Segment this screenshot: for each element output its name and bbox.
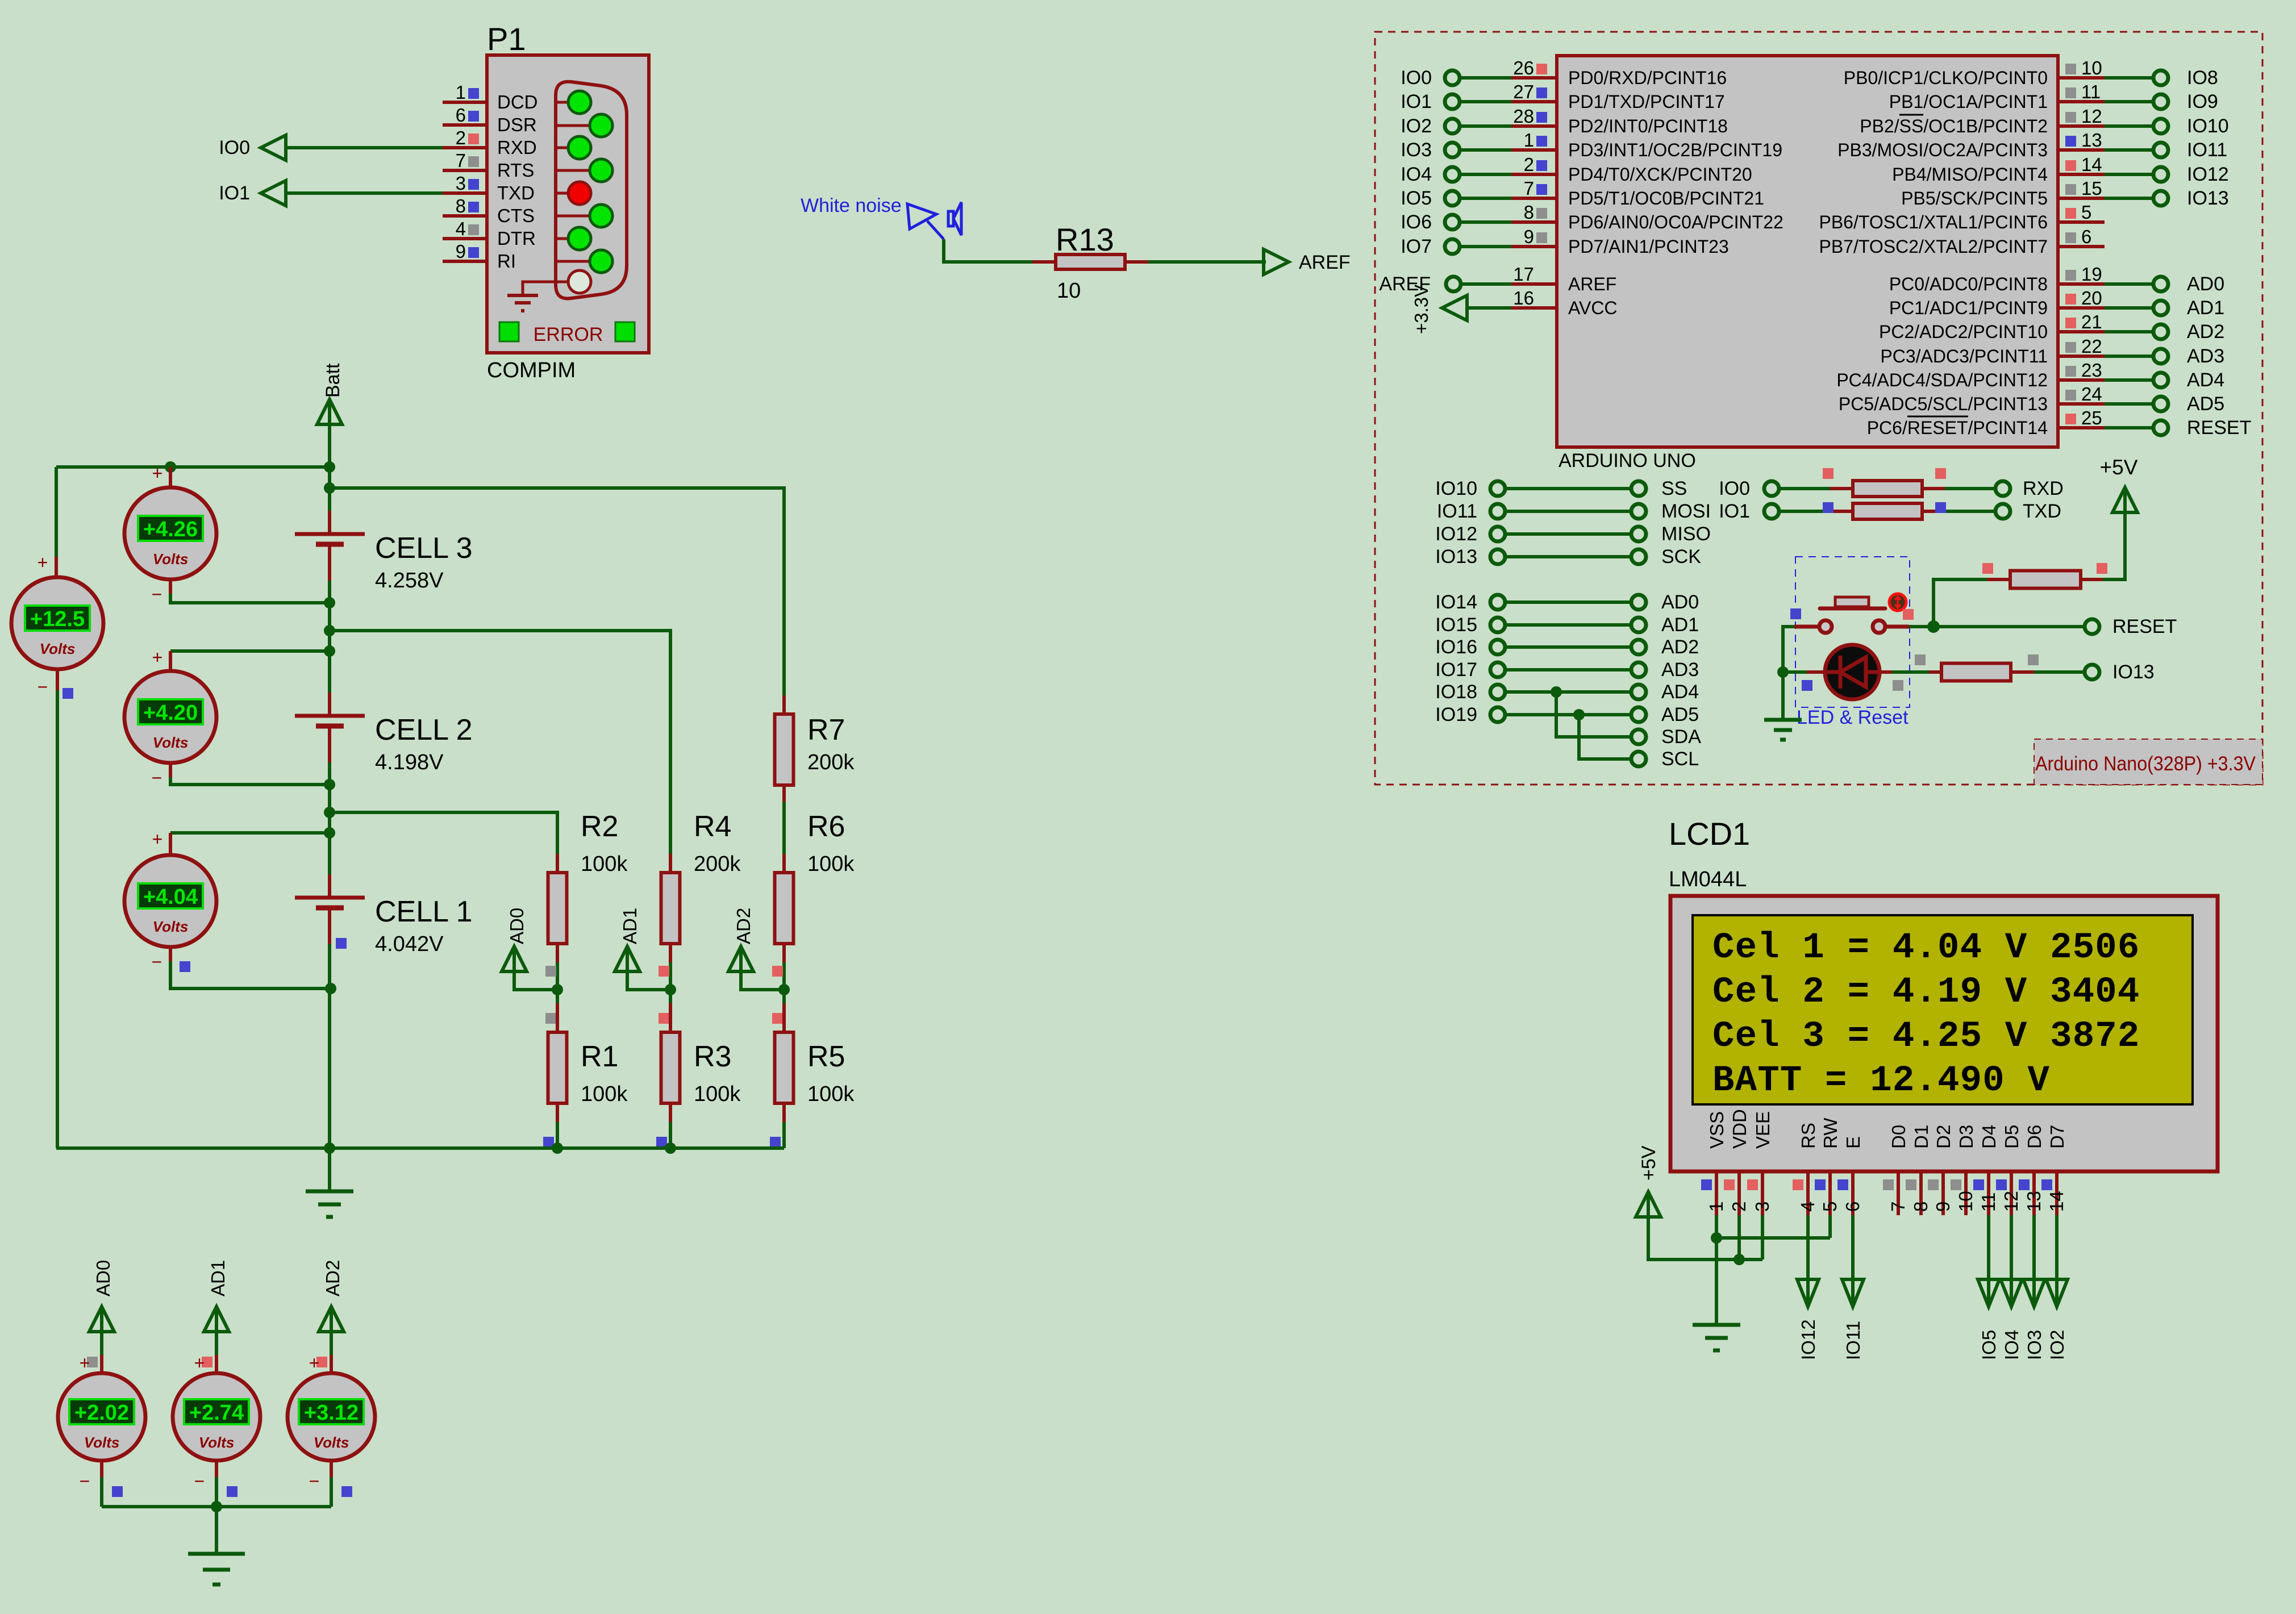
wire bottom meters common	[102, 1501, 331, 1554]
resistor R4	[661, 854, 680, 962]
voltmeter +2.02 Volts (AD0)	[58, 1332, 145, 1507]
svg-text:RESET: RESET	[2187, 417, 2251, 439]
svg-text:−: −	[37, 677, 48, 697]
pin 2 PD4/T0/XCK/PCINT20	[1511, 154, 1752, 185]
pin 7 RTS of P1	[443, 150, 534, 181]
node AD1 (right terminal)	[2153, 297, 2224, 319]
svg-text:4.258V: 4.258V	[375, 569, 444, 593]
svg-text:IO14: IO14	[1435, 591, 1477, 613]
svg-text:PD4/T0/XCK/PCINT20: PD4/T0/XCK/PCINT20	[1568, 164, 1752, 185]
svg-text:19: 19	[2081, 264, 2102, 285]
svg-text:D4: D4	[1978, 1125, 1999, 1149]
pin 1 DCD of P1	[443, 82, 538, 112]
svg-text:+: +	[152, 829, 163, 849]
svg-text:IO19: IO19	[1435, 704, 1477, 725]
svg-text:−: −	[152, 952, 162, 972]
svg-text:AD4: AD4	[2187, 369, 2224, 391]
svg-text:8: 8	[1910, 1202, 1931, 1212]
node IO11 / MOSI header pair	[1437, 501, 1711, 522]
svg-text:AD1: AD1	[1661, 614, 1699, 636]
svg-text:D5: D5	[2001, 1125, 2022, 1149]
node AD1 (arrow, bottom meter)	[204, 1260, 229, 1332]
svg-text:AD0: AD0	[2187, 273, 2224, 295]
wire AREF	[1461, 282, 1511, 286]
svg-text:IO16: IO16	[1435, 636, 1477, 658]
wire AD1 tap	[627, 971, 676, 995]
svg-text:+5V: +5V	[2100, 456, 2138, 479]
value 100k (R2)	[581, 852, 628, 876]
LCD text line 3	[1712, 1016, 2140, 1057]
svg-text:D1: D1	[1911, 1125, 1932, 1149]
svg-text:RXD: RXD	[497, 137, 537, 158]
pin 10 D3 of LCD1	[1951, 1125, 1977, 1215]
svg-text:IO11: IO11	[1843, 1321, 1864, 1360]
svg-text:TXD: TXD	[497, 182, 535, 203]
svg-text:AD5: AD5	[2187, 393, 2224, 415]
svg-text:SDA: SDA	[1661, 726, 1701, 748]
value 4.258V	[375, 569, 444, 593]
svg-text:ARDUINO UNO: ARDUINO UNO	[1559, 450, 1696, 472]
svg-text:−: −	[194, 1471, 205, 1491]
pin 8 CTS of P1	[443, 195, 535, 226]
svg-text:PC2/ADC2/PCINT10: PC2/ADC2/PCINT10	[1879, 322, 2048, 342]
svg-text:4: 4	[456, 218, 466, 239]
svg-text:AD2: AD2	[733, 908, 754, 944]
svg-text:IO10: IO10	[2187, 115, 2229, 137]
wire bus to R2 column	[330, 812, 557, 854]
svg-text:VSS: VSS	[1706, 1111, 1727, 1149]
svg-text:D3: D3	[1956, 1125, 1977, 1149]
node SCL terminal	[1631, 748, 1699, 770]
svg-text:AD3: AD3	[1661, 659, 1699, 681]
battery CELL 2	[295, 693, 365, 762]
resistor (series TXD)	[1780, 503, 1995, 519]
svg-text:+3.3V: +3.3V	[1411, 285, 1432, 334]
pin 20 PC1/ADC1/PCINT9	[1889, 287, 2105, 318]
wire R7 to R6	[782, 802, 786, 854]
value 100k (R3)	[694, 1082, 741, 1106]
svg-text:Cel 3 = 4.25 V 3872: Cel 3 = 4.25 V 3872	[1712, 1016, 2140, 1057]
P1 DB9 pin lamp 7	[556, 227, 591, 250]
svg-text:+: +	[152, 463, 163, 483]
node IO3 (left terminal)	[1401, 139, 1460, 161]
pin 2 RXD of P1	[443, 127, 537, 158]
svg-text:1: 1	[456, 82, 466, 103]
svg-text:IO0: IO0	[1719, 478, 1750, 499]
svg-text:AREF: AREF	[1568, 274, 1616, 294]
svg-text:13: 13	[2081, 130, 2102, 151]
svg-text:4.042V: 4.042V	[375, 932, 444, 956]
pin 13 D6 of LCD1	[2019, 1125, 2045, 1215]
svg-text:8: 8	[456, 195, 466, 216]
blue square (cell1 minus)	[336, 938, 347, 949]
wire left rail of LED&Reset	[1783, 627, 1794, 720]
wire R4 to junction	[669, 962, 672, 1003]
value 4.042V	[375, 932, 444, 956]
pin 5 PB6/TOSC1/XTAL1/PCINT6	[1819, 202, 2105, 232]
DB9 connector outline inside P1	[556, 82, 627, 299]
svg-text:Arduino Nano(328P) +3.3V: Arduino Nano(328P) +3.3V	[2035, 753, 2256, 775]
node AD0 (right terminal)	[2153, 273, 2224, 295]
ground (LCD VSS)	[1693, 1325, 1740, 1350]
svg-text:200k: 200k	[694, 852, 741, 876]
label R4	[694, 810, 731, 843]
node IO12 (arrow)	[1797, 1279, 1819, 1360]
svg-text:IO5: IO5	[1978, 1330, 1999, 1360]
node IO19 / AD5 header pair	[1435, 704, 1699, 725]
wire pin 23 to AD4	[2105, 378, 2153, 382]
svg-text:12: 12	[2001, 1191, 2022, 1212]
svg-text:PC4/ADC4/SDA/PCINT12: PC4/ADC4/SDA/PCINT12	[1836, 370, 2048, 390]
wire pin 22 to AD3	[2105, 355, 2153, 358]
svg-text:AREF: AREF	[1299, 252, 1351, 273]
svg-text:2: 2	[1728, 1202, 1749, 1212]
node IO3 (arrow)	[2023, 1279, 2045, 1360]
svg-text:PD5/T1/OC0B/PCINT21: PD5/T1/OC0B/PCINT21	[1568, 188, 1764, 208]
svg-text:PD2/INT0/PCINT18: PD2/INT0/PCINT18	[1568, 116, 1728, 136]
wire RW to VSS	[1716, 1215, 1830, 1238]
wire ground rail	[56, 1146, 784, 1150]
wire R5 to ground rail	[782, 1122, 786, 1148]
wire R2 to junction	[556, 962, 559, 1003]
pin 3 VEE of LCD1	[1747, 1111, 1773, 1215]
svg-text:27: 27	[1513, 81, 1534, 102]
pin 4 RS of LCD1	[1793, 1123, 1819, 1215]
svg-text:IO2: IO2	[2047, 1330, 2068, 1360]
svg-text:PB3/MOSI/OC2A/PCINT3: PB3/MOSI/OC2A/PCINT3	[1837, 140, 2048, 160]
svg-text:COMPIM: COMPIM	[487, 358, 576, 382]
svg-text:IO1: IO1	[1719, 501, 1750, 522]
wire pin 10 to IO8	[2105, 76, 2153, 80]
svg-text:+2.02: +2.02	[74, 1401, 129, 1425]
node IO17 / AD3 header pair	[1435, 659, 1699, 681]
svg-text:DTR: DTR	[497, 228, 536, 249]
wire pin 25 to RESET	[2105, 426, 2153, 429]
svg-text:6: 6	[456, 105, 466, 126]
pin 12 D5 of LCD1	[1996, 1125, 2022, 1215]
svg-text:14: 14	[2046, 1191, 2067, 1212]
junction	[324, 1142, 676, 1154]
node IO0 (serial header)	[1719, 478, 1779, 499]
svg-text:IO9: IO9	[2187, 91, 2218, 112]
ground (battery rail)	[306, 1148, 353, 1217]
value 100k (R6)	[807, 852, 855, 876]
svg-text:E: E	[1843, 1136, 1864, 1149]
svg-text:PB5/SCK/PCINT5: PB5/SCK/PCINT5	[1901, 188, 2048, 208]
svg-text:9: 9	[1524, 226, 1534, 247]
P1 DB9 pin lamp 9	[556, 270, 591, 293]
squares at R4 junction	[659, 966, 669, 1024]
wire pin 21 to AD2	[2105, 330, 2153, 333]
resistor R1	[548, 1003, 567, 1122]
label R2	[581, 810, 618, 843]
svg-text:CELL 2: CELL 2	[375, 714, 473, 746]
wire AD2 tap	[741, 971, 790, 995]
wire IO1 to pin 27	[1460, 100, 1511, 103]
connector P1 COMPIM body	[487, 55, 649, 353]
power +5V (arrow)	[2100, 456, 2138, 512]
svg-text:IO0: IO0	[219, 137, 250, 159]
svg-text:IO1: IO1	[1401, 91, 1432, 112]
node IO10 / SS header pair	[1435, 478, 1687, 499]
resistor (LED series)	[1880, 664, 2083, 681]
svg-text:D6: D6	[2024, 1125, 2045, 1149]
svg-text:DCD: DCD	[497, 91, 538, 112]
svg-text:7: 7	[1524, 178, 1534, 199]
svg-text:RS: RS	[1798, 1123, 1819, 1149]
svg-text:100k: 100k	[807, 1082, 855, 1106]
node IO13 (right terminal)	[2153, 187, 2229, 209]
svg-text:RESET: RESET	[2112, 616, 2177, 637]
svg-text:Volts: Volts	[153, 734, 189, 751]
value 200k (R7)	[807, 750, 855, 774]
node AREF (left terminal)	[1379, 273, 1461, 295]
node IO8 (right terminal)	[2153, 67, 2218, 89]
svg-text:2: 2	[1524, 154, 1534, 175]
svg-text:+12.5: +12.5	[30, 607, 85, 631]
label R13	[1056, 222, 1114, 257]
node IO13 terminal	[2085, 661, 2155, 683]
svg-text:IO11: IO11	[2187, 139, 2227, 161]
node AD3 (right terminal)	[2153, 345, 2224, 367]
node IO0 (left terminal)	[1401, 67, 1460, 89]
svg-text:4.198V: 4.198V	[375, 750, 444, 774]
dashed box LED & Reset	[1795, 557, 1910, 707]
wire LCD pin to IO4	[2010, 1215, 2013, 1282]
svg-text:IO12: IO12	[2187, 164, 2229, 185]
value 10 (R13)	[1057, 279, 1081, 303]
svg-text:P1: P1	[487, 21, 526, 57]
value LM044L	[1669, 868, 1747, 891]
node IO10 (right terminal)	[2153, 115, 2229, 137]
svg-text:RI: RI	[497, 251, 516, 272]
pin 11 D4 of LCD1	[1973, 1125, 1999, 1215]
svg-text:+4.20: +4.20	[143, 701, 198, 725]
wire pin 11 to IO9	[2105, 100, 2153, 103]
node IO1 (left terminal)	[1401, 91, 1460, 112]
svg-text:200k: 200k	[807, 750, 855, 774]
svg-text:R13: R13	[1056, 222, 1114, 257]
pin 15 PB5/SCK/PCINT5	[1901, 178, 2105, 208]
svg-text:Cel 2 = 4.19 V 3404: Cel 2 = 4.19 V 3404	[1712, 972, 2140, 1013]
svg-text:PD0/RXD/PCINT16: PD0/RXD/PCINT16	[1568, 68, 1727, 88]
pin 23 PC4/ADC4/SDA/PCINT12	[1836, 360, 2105, 390]
node IO12 / MISO header pair	[1435, 523, 1711, 545]
svg-text:TXD: TXD	[2023, 501, 2061, 522]
overline SS (PB2)	[1899, 114, 1923, 116]
label R1	[581, 1040, 618, 1073]
svg-text:28: 28	[1513, 106, 1534, 127]
pin 11 PB1/OC1A/PCINT1	[1889, 81, 2105, 112]
pin 2 VDD of LCD1	[1724, 1109, 1750, 1215]
svg-text:IO4: IO4	[2001, 1330, 2022, 1360]
svg-text:13: 13	[2023, 1191, 2044, 1212]
LCD screen	[1693, 915, 2193, 1104]
junction	[165, 461, 335, 494]
P1 DB9 pin lamp 1	[556, 91, 591, 114]
svg-text:IO2: IO2	[1401, 115, 1432, 137]
svg-text:AD4: AD4	[1661, 681, 1699, 703]
pin 9 RI of P1	[443, 241, 516, 272]
svg-text:10: 10	[2081, 57, 2102, 78]
node AD1 (arrow)	[615, 908, 640, 971]
node IO14 / AD0 header pair	[1435, 591, 1699, 613]
svg-text:IO13: IO13	[2112, 661, 2155, 683]
svg-text:PB2/SS/OC1B/PCINT2: PB2/SS/OC1B/PCINT2	[1860, 116, 2048, 136]
squares (pushbutton)	[1790, 608, 1914, 620]
wire pin 12 to IO10	[2105, 124, 2153, 128]
svg-text:7: 7	[456, 150, 466, 171]
wire top rail to meters	[56, 467, 330, 557]
svg-text:10: 10	[1057, 279, 1081, 303]
dashed enclosure (Arduino Nano subsystem)	[1375, 32, 2262, 785]
voltmeter +12.5 Volts (battery)	[11, 552, 103, 1148]
node IO7 (left terminal)	[1401, 236, 1460, 257]
wire pin 15 to IO13	[2105, 197, 2153, 200]
LCD text line 2	[1712, 972, 2140, 1013]
ground (inside P1)	[507, 282, 568, 311]
wire pin 19 to AD0	[2105, 282, 2153, 286]
svg-text:PB6/TOSC1/XTAL1/PCINT6: PB6/TOSC1/XTAL1/PCINT6	[1819, 212, 2048, 232]
resistor R5	[775, 1003, 794, 1122]
svg-text:IO12: IO12	[1435, 523, 1477, 545]
wire IO1 to TXD	[286, 191, 443, 195]
wire LCD pin to IO12	[1806, 1215, 1810, 1282]
label box Arduino Nano(328P) +3.3V	[2034, 739, 2262, 785]
wire pin 20 to AD1	[2105, 306, 2153, 310]
svg-text:10: 10	[1955, 1191, 1976, 1212]
voltmeter +4.04 Volts	[124, 829, 330, 989]
power +3.3V (arrow at AVCC)	[1411, 285, 1467, 334]
svg-text:PB1/OC1A/PCINT1: PB1/OC1A/PCINT1	[1889, 91, 2048, 112]
wire pin 13 to IO11	[2105, 148, 2153, 152]
svg-text:24: 24	[2081, 383, 2102, 404]
svg-text:AD0: AD0	[93, 1260, 114, 1296]
wire IO2 to pin 28	[1460, 124, 1511, 128]
svg-text:VDD: VDD	[1729, 1109, 1750, 1149]
svg-text:+3.12: +3.12	[304, 1401, 359, 1425]
svg-text:IO4: IO4	[1401, 164, 1432, 185]
svg-text:AD0: AD0	[1661, 591, 1699, 613]
node IO12 (right terminal)	[2153, 164, 2229, 185]
svg-text:AD2: AD2	[1661, 636, 1699, 658]
svg-text:15: 15	[2081, 178, 2102, 199]
node AD4 (right terminal)	[2153, 369, 2224, 391]
blue square (meter 4.04 minus)	[180, 961, 190, 972]
pin 6 PB7/TOSC2/XTAL2/PCINT7	[1819, 226, 2105, 257]
svg-text:+4.04: +4.04	[143, 885, 198, 909]
svg-text:Volts: Volts	[314, 1434, 349, 1451]
svg-text:PC6/RESET/PCINT14: PC6/RESET/PCINT14	[1867, 418, 2048, 438]
node IO2 (left terminal)	[1401, 115, 1460, 137]
value 4.198V	[375, 750, 444, 774]
svg-text:+: +	[80, 1353, 90, 1373]
svg-text:−: −	[309, 1471, 320, 1491]
wire pullup to +5V	[2103, 511, 2125, 579]
label R3	[694, 1040, 731, 1073]
svg-text:DSR: DSR	[497, 114, 537, 135]
pin 8 D1 of LCD1	[1906, 1125, 1932, 1215]
svg-text:R7: R7	[807, 714, 845, 746]
battery CELL 1	[295, 874, 365, 944]
svg-text:11: 11	[1978, 1192, 1999, 1212]
svg-text:+: +	[152, 647, 163, 668]
svg-text:CELL 1: CELL 1	[375, 895, 473, 928]
label CELL 1	[375, 895, 473, 928]
wire IO6 to pin 8	[1460, 220, 1511, 224]
wire IO0 to RXD	[286, 146, 443, 149]
overline RESET (PC6)	[1907, 416, 1968, 418]
node AD2 (right terminal)	[2153, 321, 2224, 343]
wire pin 14 to IO12	[2105, 173, 2153, 176]
svg-text:Volts: Volts	[153, 550, 189, 568]
svg-text:−: −	[152, 768, 162, 788]
svg-text:5: 5	[1819, 1202, 1840, 1212]
svg-text:100k: 100k	[807, 852, 855, 876]
svg-text:PD3/INT1/OC2B/PCINT19: PD3/INT1/OC2B/PCINT19	[1568, 140, 1782, 160]
node AD0 (arrow, bottom meter)	[89, 1260, 114, 1332]
resistor R2	[548, 854, 567, 962]
wire IO7 to pin 9	[1460, 245, 1511, 248]
svg-text:AVCC: AVCC	[1568, 298, 1618, 318]
wire LCD pin to IO3	[2032, 1215, 2036, 1282]
svg-text:PC0/ADC0/PCINT8: PC0/ADC0/PCINT8	[1889, 274, 2048, 294]
svg-text:IO7: IO7	[1401, 236, 1432, 257]
svg-text:R1: R1	[581, 1040, 618, 1073]
squares at R6 junction	[772, 966, 783, 1024]
svg-text:16: 16	[1513, 287, 1534, 308]
svg-text:8: 8	[1524, 202, 1534, 223]
node Batt (arrow at top of battery bus)	[317, 363, 344, 424]
node IO16 / AD2 header pair	[1435, 636, 1699, 658]
squares (RXD resistor)	[1823, 468, 1946, 479]
svg-text:+: +	[194, 1353, 205, 1373]
resistor R6	[775, 854, 794, 962]
blue square (R1 bottom)	[543, 1137, 554, 1148]
pin 25 PC6/RESET/PCINT14	[1867, 407, 2105, 438]
label CELL 2	[375, 714, 473, 746]
svg-text:3: 3	[1752, 1202, 1773, 1212]
svg-text:R5: R5	[807, 1040, 845, 1073]
svg-text:CELL 3: CELL 3	[375, 532, 473, 565]
P1 DB9 pin lamp 2	[556, 114, 612, 137]
resistor (reset pullup)	[1987, 571, 2103, 589]
node AREF (arrow)	[1264, 249, 1351, 274]
node IO11 (arrow)	[1842, 1279, 1864, 1360]
svg-text:AD2: AD2	[322, 1260, 343, 1296]
node IO1 (serial header)	[1719, 501, 1779, 522]
label R6	[807, 810, 845, 843]
svg-text:SS: SS	[1661, 478, 1687, 499]
pin 7 D0 of LCD1	[1883, 1125, 1909, 1215]
wire AD0 tap	[514, 971, 563, 995]
svg-text:+: +	[37, 552, 48, 573]
wire IO19 to SCL	[1573, 709, 1631, 759]
svg-text:17: 17	[1513, 264, 1534, 285]
svg-text:IO11: IO11	[1437, 501, 1477, 522]
svg-text:9: 9	[1932, 1202, 1953, 1212]
svg-text:AD3: AD3	[2187, 345, 2224, 367]
svg-text:−: −	[152, 584, 162, 604]
wire battery bus	[328, 424, 331, 1148]
voltmeter +2.74 Volts (AD1)	[173, 1332, 260, 1507]
svg-text:CTS: CTS	[497, 205, 535, 226]
svg-text:+2.74: +2.74	[189, 1401, 244, 1425]
svg-text:IO13: IO13	[2187, 187, 2229, 209]
squares (LED series resistor)	[1802, 654, 2039, 691]
wire R13 to AREF	[1148, 260, 1266, 264]
pin 16 AVCC	[1511, 287, 1618, 318]
